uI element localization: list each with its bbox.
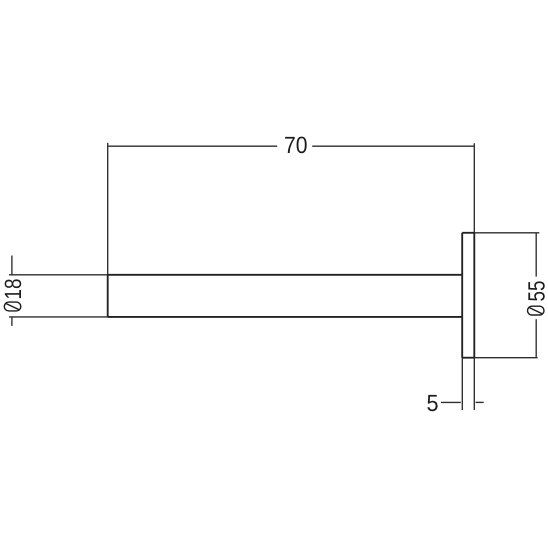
flange right face (wall side) — [473, 233, 475, 358]
dimension line Ø18, upper stub — [11, 256, 13, 275]
dimension line 5, left segment — [441, 401, 461, 403]
flange top edge — [462, 232, 474, 234]
flange left face — [461, 233, 463, 358]
dimension line 70, left segment — [108, 145, 277, 147]
svg-text:55: 55 — [524, 281, 548, 302]
extension line, flange top edge extended right for Ø55 — [474, 232, 539, 234]
dimension line Ø18, lower stub — [11, 317, 13, 326]
diameter symbol for Ø55 — [528, 306, 545, 315]
extension line, spout top edge extended left for Ø18 — [9, 274, 108, 276]
extension line, flange bottom edge extended right for Ø55 — [474, 357, 537, 359]
extension line, left end of 70 dimension (down to spout) — [107, 143, 109, 275]
extension line, flange left face extended down for 5 dimension — [461, 358, 463, 410]
spout bottom edge — [108, 316, 463, 318]
diameter symbol for Ø18 — [4, 302, 21, 311]
flange chamfer line — [465, 234, 467, 358]
spout top edge — [108, 274, 463, 276]
object outline: wall-mounted spout body and flange — [108, 233, 475, 358]
extension line, flange right face extended down for 5 dimension — [473, 358, 475, 410]
svg-text:70: 70 — [284, 132, 308, 158]
dimension line Ø55, lower segment — [535, 319, 537, 358]
spout left end face — [107, 275, 109, 317]
extension line, spout bottom edge extended left for Ø18 — [9, 316, 108, 318]
dimension line 5, right segment — [476, 401, 484, 403]
dimension line Ø55, upper segment — [535, 233, 537, 277]
flange bottom edge — [462, 357, 474, 359]
svg-text:18: 18 — [0, 279, 26, 300]
dimension line 70, right segment — [312, 145, 474, 147]
svg-text:5: 5 — [426, 390, 438, 416]
extension line, right end of 70 dimension (above flange) — [473, 143, 475, 233]
thin lines: extension and dimension lines — [9, 143, 539, 410]
